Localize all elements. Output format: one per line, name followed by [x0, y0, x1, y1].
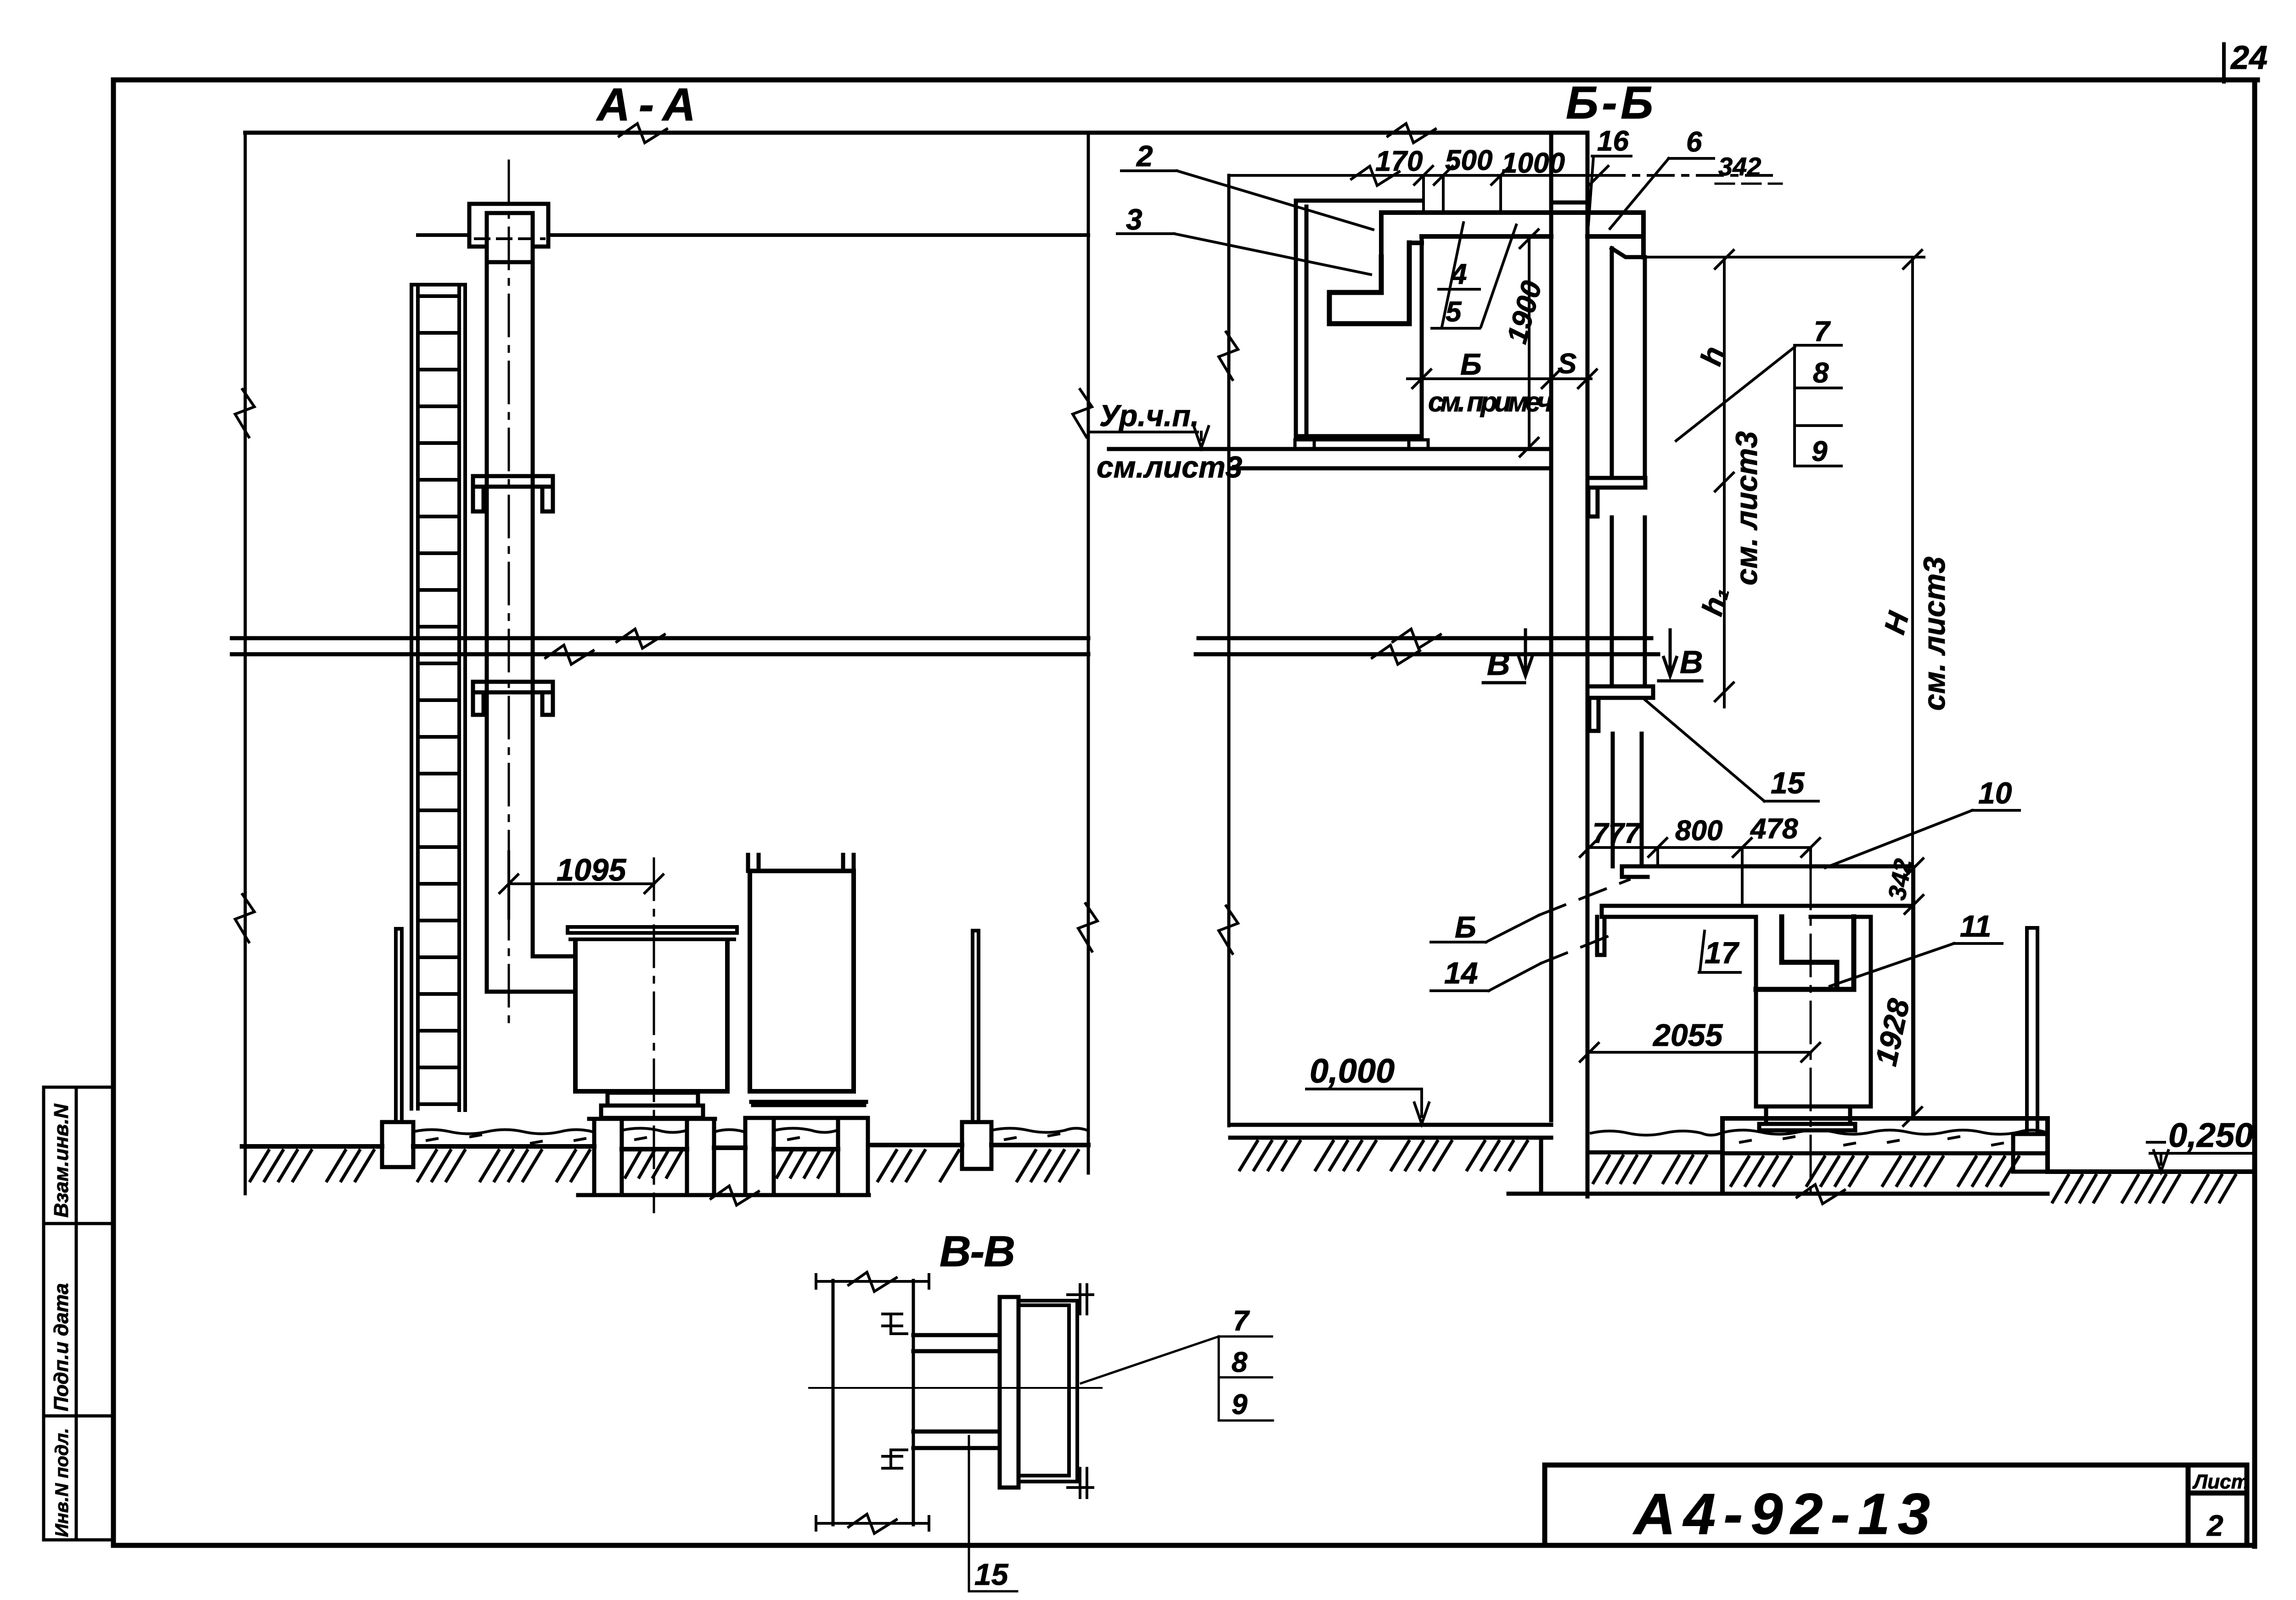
- lower tank pedestal: [1759, 1106, 1855, 1130]
- outer jacket panel segment C: [1613, 734, 1642, 866]
- wall corbel 1 with hook: [1587, 478, 1645, 516]
- svg-text:478: 478: [1750, 813, 1798, 845]
- dimension 1928 rotated: [1913, 907, 1915, 1118]
- bolt marks lower: [883, 1450, 907, 1468]
- svg-text:1095: 1095: [557, 853, 626, 887]
- svg-text:15: 15: [1771, 766, 1805, 800]
- svg-text:24: 24: [2230, 39, 2268, 76]
- lower bracket bottom plate with hook: [1597, 906, 1910, 955]
- В-В wall (double line with breaks): [833, 1280, 913, 1525]
- svg-text:2055: 2055: [1652, 1018, 1723, 1053]
- svg-text:1000: 1000: [1502, 147, 1565, 179]
- svg-text:0,000: 0,000: [1310, 1052, 1395, 1090]
- Z-baffle plate inside lower tank: [1756, 917, 1854, 989]
- outer jacket panel segment B: [1612, 517, 1645, 686]
- svg-text:Б-Б: Б-Б: [1566, 77, 1653, 129]
- svg-text:10: 10: [1978, 776, 2012, 810]
- ground surface line A-A: [242, 1145, 1088, 1149]
- horizontal beam top flange: [913, 1335, 1000, 1351]
- svg-text:2: 2: [1136, 140, 1153, 173]
- dimension line h / h1: [1715, 250, 1733, 707]
- second apparatus (scrubber) body: [750, 871, 854, 1091]
- svg-text:17: 17: [1705, 936, 1740, 970]
- second apparatus foundation piers: [745, 1118, 868, 1195]
- tank (cyclone) body A-A: [575, 941, 727, 1091]
- svg-text:170: 170: [1375, 146, 1423, 177]
- svg-text:7: 7: [1233, 1305, 1250, 1337]
- interior ground slab Б-Б: [1230, 1125, 1551, 1192]
- svg-text:9: 9: [1232, 1389, 1248, 1420]
- hatching between foundation piers: [625, 1151, 833, 1177]
- foundation bottom line with break: [578, 1193, 869, 1197]
- right slim stand post: [973, 931, 979, 1122]
- svg-text:6: 6: [1686, 126, 1702, 158]
- A-A left dimension/extent line with breaks: [244, 133, 247, 1194]
- sand bedding wavy lines A-A: [413, 1128, 1087, 1134]
- A-A upper ceiling line: [418, 233, 1088, 237]
- svg-text:0,250: 0,250: [2168, 1116, 2253, 1154]
- upper floor level line and slab: [1109, 449, 1551, 468]
- svg-text:S: S: [1558, 348, 1576, 380]
- left slim stand post: [396, 929, 402, 1122]
- second floor slab band across A-A: [232, 638, 1088, 654]
- svg-text:А-А: А-А: [596, 79, 696, 130]
- exhaust column (duct): [487, 213, 533, 992]
- foundation bottom line with break: [1508, 1192, 2048, 1196]
- lower bracket top shelf: [1622, 866, 1910, 877]
- Б-Б left dimension/extent line with breaks: [1227, 175, 1231, 1126]
- svg-text:Б: Б: [1455, 910, 1476, 944]
- svg-text:см. примеч: см. примеч: [1428, 387, 1553, 417]
- svg-text:11: 11: [1960, 909, 1992, 943]
- lower tank shell: [1756, 917, 1871, 1106]
- svg-text:7: 7: [1814, 316, 1831, 348]
- svg-text:500: 500: [1445, 145, 1492, 176]
- svg-text:800: 800: [1675, 815, 1722, 847]
- column support bracket upper: [473, 476, 553, 511]
- interior hatching Б-Б: [1240, 1141, 1527, 1170]
- second floor slab band Б-Б: [1196, 638, 1658, 654]
- A-A top boundary line with break marks: [245, 131, 1587, 135]
- flange plate: [1000, 1297, 1019, 1488]
- column cap plate: [469, 204, 548, 262]
- right post footing Б-Б: [2013, 1134, 2048, 1172]
- column vertical centerline: [508, 161, 510, 1029]
- machine foundation block Б-Б: [1722, 1118, 2048, 1192]
- svg-text:342: 342: [1718, 152, 1761, 181]
- ground hatching A-A: [250, 1151, 1078, 1181]
- dimension line Б / S: [1407, 370, 1597, 388]
- svg-text:15: 15: [974, 1557, 1009, 1591]
- svg-text:Лист: Лист: [2192, 1471, 2249, 1493]
- column support bracket lower: [473, 682, 553, 715]
- dim 342 vertical at bracket: [1905, 859, 1923, 914]
- wall corbel 2 with hook: [1587, 686, 1653, 731]
- lower tank centerline: [1810, 868, 1812, 1194]
- horizontal extent line to H dimension: [1643, 256, 1924, 258]
- svg-text:2: 2: [2206, 1509, 2223, 1542]
- svg-text:Ур.ч.п.: Ур.ч.п.: [1099, 399, 1199, 432]
- svg-text:3: 3: [1126, 203, 1142, 236]
- page number 24 top right: [2222, 44, 2226, 82]
- channel profile end view: [1019, 1301, 1077, 1482]
- svg-text:Взам.инв.N: Взам.инв.N: [50, 1103, 73, 1218]
- horizontal beam bottom flange: [913, 1432, 1000, 1448]
- right post footing: [962, 1122, 991, 1169]
- tank foundation piers: [594, 1120, 714, 1195]
- ground line right of wall: [1587, 1151, 1722, 1155]
- duct elbow to tank: [487, 956, 575, 992]
- svg-text:см.лист3: см.лист3: [1097, 450, 1242, 484]
- dimension 1900 vertical: [1520, 230, 1538, 456]
- title block bottom right: [1545, 1465, 2247, 1545]
- lower bracket dimension line 777/800/478: [1580, 838, 1820, 857]
- bolt marks upper: [883, 1314, 907, 1334]
- svg-text:В-В: В-В: [940, 1227, 1015, 1276]
- svg-text:8: 8: [1232, 1347, 1248, 1378]
- right stand post Б-Б: [2027, 928, 2037, 1134]
- top dimension line 170/500/1000: [1229, 166, 1608, 185]
- top support beam (bracket): [1381, 213, 1643, 257]
- bolt cross marks channel bottom: [1068, 1468, 1093, 1498]
- В-В wall top cap line with break: [816, 1274, 929, 1530]
- svg-text:777: 777: [1593, 818, 1641, 849]
- upper tank shell: [1296, 201, 1422, 436]
- tank top flange: [568, 927, 737, 939]
- Z-baffle plate inside upper tank: [1329, 243, 1409, 324]
- left post footing: [382, 1122, 413, 1167]
- svg-text:В: В: [1680, 644, 1703, 680]
- svg-text:Б: Б: [1460, 347, 1482, 381]
- outer jacket panel segment A: [1612, 248, 1645, 478]
- svg-text:16: 16: [1597, 125, 1629, 157]
- tank centerline: [653, 859, 655, 1212]
- bolt cross marks channel top: [1068, 1285, 1093, 1314]
- ladder rungs: [418, 296, 459, 1104]
- svg-text:14: 14: [1444, 956, 1478, 990]
- ground line right of foundation: [2048, 1169, 2252, 1174]
- extension verticals from top dim: [1424, 175, 1501, 212]
- upper tank baseplate: [1295, 440, 1428, 448]
- svg-text:см. лист3: см. лист3: [1729, 431, 1763, 585]
- A-A right boundary line with break: [1087, 133, 1090, 1173]
- svg-text:В: В: [1487, 646, 1510, 682]
- building wall Б-Б: [1551, 133, 1587, 1196]
- svg-text:8: 8: [1813, 357, 1829, 389]
- tank pedestal and base: [589, 1093, 715, 1119]
- wall ladder rails: [411, 285, 465, 1110]
- svg-text:9: 9: [1812, 436, 1828, 467]
- svg-text:Инв.N подл.: Инв.N подл.: [52, 1428, 72, 1537]
- svg-text:Подп.и дата: Подп.и дата: [50, 1283, 73, 1411]
- left stamp column boxes: [44, 1087, 113, 1540]
- sand bedding inside foundation: [1724, 1130, 2046, 1134]
- В-В wall bottom cap line with break: [816, 1514, 929, 1533]
- dimension line H full height: [1903, 250, 1922, 1126]
- В-В centerline: [809, 1387, 1102, 1389]
- svg-text:см. лист3: см. лист3: [1917, 556, 1951, 711]
